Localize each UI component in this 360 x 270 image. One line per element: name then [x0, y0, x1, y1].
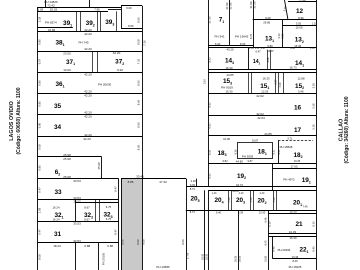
svg-text:6.86: 6.86: [37, 39, 41, 45]
svg-text:1.10: 1.10: [250, 197, 253, 202]
bottom row divider a: [75, 243, 77, 270]
svg-text:1.10: 1.10: [273, 197, 276, 202]
svg-text:6.10: 6.10: [268, 221, 272, 227]
svg-text:25.98: 25.98: [97, 162, 101, 169]
svg-text:30.03: 30.03: [238, 255, 241, 262]
row 15 north boundary: [208, 72, 317, 74]
lot 7_1 south edge: [208, 45, 254, 47]
lot 22_1 west edge: [272, 236, 274, 258]
bottom column divider c: [238, 211, 240, 270]
svg-text:PH 13686: PH 13686: [156, 265, 170, 269]
svg-text:5.16: 5.16: [312, 83, 316, 89]
svg-text:(Código: 34260) Altura: 1100: (Código: 34260) Altura: 1100: [344, 96, 350, 163]
row 6 south boundary / row 33 north: [38, 178, 119, 180]
svg-text:44.85: 44.85: [227, 73, 234, 77]
svg-text:31.56: 31.56: [253, 1, 257, 8]
lot 37_1/37_2 divider a: [92, 51, 94, 72]
row 19 south boundary: [186, 186, 317, 188]
svg-text:6.86: 6.86: [37, 122, 41, 128]
svg-text:9.71: 9.71: [287, 136, 293, 140]
right block east edge (Callao frontage): [316, 0, 318, 270]
svg-text:17.06: 17.06: [186, 252, 190, 259]
svg-text:1.08: 1.08: [37, 207, 41, 213]
svg-text:6.40: 6.40: [216, 211, 222, 215]
svg-text:6.88: 6.88: [107, 244, 113, 248]
svg-text:3.10: 3.10: [277, 33, 281, 39]
lot 39_2/39_3 divider a: [97, 11, 99, 32]
svg-text:6.47: 6.47: [37, 229, 41, 235]
svg-text:5.16: 5.16: [312, 124, 316, 130]
lot PH 13686 east edge: [186, 179, 188, 270]
svg-text:8.66: 8.66: [137, 99, 141, 105]
left block west edge (Lagos Ovidio frontage): [37, 7, 39, 270]
svg-text:8.35: 8.35: [208, 149, 212, 155]
svg-text:PH 16025: PH 16025: [289, 265, 302, 269]
lot 20_2 west edge: [253, 190, 255, 210]
svg-text:8.31: 8.31: [278, 149, 281, 154]
row 37 south boundary: [38, 72, 143, 74]
svg-text:6.10: 6.10: [312, 221, 316, 227]
svg-text:8.86: 8.86: [128, 180, 134, 184]
lot 19_1 west edge: [272, 164, 274, 191]
svg-text:3.18: 3.18: [37, 16, 41, 22]
svg-text:16.87: 16.87: [252, 139, 259, 143]
svg-text:16.39: 16.39: [289, 230, 296, 234]
lot 32_1/32_2 divider: [75, 200, 77, 221]
svg-text:42.20: 42.20: [83, 137, 91, 141]
svg-text:17.05: 17.05: [291, 164, 298, 168]
svg-text:12.88: 12.88: [298, 76, 305, 80]
svg-text:8.32: 8.32: [208, 102, 212, 108]
svg-text:6.07: 6.07: [37, 58, 41, 64]
svg-text:1.10: 1.10: [228, 197, 231, 202]
svg-text:1.40: 1.40: [212, 192, 217, 195]
lot 18_1 interior box: [238, 143, 273, 159]
svg-text:8.47: 8.47: [290, 46, 296, 50]
svg-text:12.00: 12.00: [259, 211, 266, 215]
lot 13_1/13_2 divider: [282, 20, 284, 48]
row 35 south boundary: [38, 114, 143, 116]
row 39 south boundary: [38, 31, 143, 33]
svg-text:8.31: 8.31: [272, 149, 275, 154]
svg-text:34.73: 34.73: [236, 183, 243, 187]
svg-text:23.00: 23.00: [63, 52, 71, 56]
bottom row divider b: [98, 243, 100, 270]
svg-text:44.85: 44.85: [236, 159, 243, 163]
svg-text:6.40: 6.40: [312, 246, 316, 252]
row 32 south boundary: [38, 221, 119, 223]
svg-text:8.66: 8.66: [137, 122, 141, 128]
lot 20_3 west edge: [231, 190, 233, 210]
svg-text:8.67: 8.67: [84, 206, 90, 210]
lot 39_2/39_3 divider b: [100, 11, 102, 32]
top strip south edge: [38, 11, 109, 13]
svg-text:8.66: 8.66: [137, 144, 141, 150]
svg-text:1.10: 1.10: [312, 22, 318, 26]
lot 39_1/39_2 divider b: [80, 11, 82, 32]
svg-text:7.45: 7.45: [302, 205, 308, 209]
svg-text:30.03: 30.03: [205, 253, 208, 260]
column divider b: [208, 190, 210, 270]
svg-text:3.10: 3.10: [203, 78, 207, 84]
svg-text:PH 4972: PH 4972: [283, 178, 295, 182]
svg-text:9.00: 9.00: [136, 239, 140, 245]
svg-text:5.16: 5.16: [312, 103, 316, 109]
left block north edge west part: [38, 7, 122, 9]
row 20 south boundary: [186, 210, 317, 212]
svg-text:PH 20630: PH 20630: [98, 82, 112, 86]
svg-text:33: 33: [54, 189, 62, 196]
row 33 south boundary: [38, 199, 119, 201]
lot 19_1 north edge: [273, 168, 317, 170]
lot 21 west column divider: [268, 211, 270, 270]
lot 12 north edge: [288, 1, 317, 3]
svg-text:16.39: 16.39: [290, 209, 297, 213]
lot 20_5 east edge / column divider a: [204, 190, 206, 270]
svg-text:16.24: 16.24: [53, 206, 60, 210]
svg-text:1.10: 1.10: [310, 47, 315, 50]
svg-text:31.56: 31.56: [207, 16, 211, 23]
svg-text:33.53: 33.53: [73, 221, 81, 225]
svg-text:8.08: 8.08: [37, 254, 41, 260]
left block north edge east part: [121, 5, 142, 7]
lot 20_2 east edge a: [273, 190, 275, 210]
svg-text:42.20: 42.20: [113, 51, 121, 55]
svg-text:42.20: 42.20: [84, 115, 92, 119]
svg-text:6.46: 6.46: [265, 217, 268, 222]
svg-text:PH 18528: PH 18528: [280, 145, 293, 149]
lot 15_3 east edge: [248, 73, 250, 94]
svg-text:3.58: 3.58: [267, 57, 270, 62]
svg-text:6.86: 6.86: [37, 165, 41, 171]
svg-text:44.85: 44.85: [264, 132, 272, 136]
svg-text:16.98: 16.98: [48, 28, 55, 32]
svg-text:16.35: 16.35: [294, 159, 301, 163]
highlighted parcel north edge: [121, 178, 142, 180]
svg-text:9.20: 9.20: [117, 68, 123, 72]
svg-text:7.16: 7.16: [142, 40, 146, 46]
svg-text:9.82: 9.82: [222, 159, 228, 163]
svg-text:PH 9339: PH 9339: [242, 154, 254, 158]
svg-text:12.84: 12.84: [299, 0, 306, 2]
svg-text:33.53: 33.53: [74, 199, 81, 203]
svg-text:PH 6574: PH 6574: [45, 21, 57, 25]
svg-text:LAGOS OVIDIO: LAGOS OVIDIO: [9, 101, 15, 141]
svg-text:15.05: 15.05: [296, 26, 303, 30]
svg-text:42.20: 42.20: [84, 28, 92, 32]
svg-text:42.63: 42.63: [257, 116, 265, 120]
svg-text:6.00: 6.00: [190, 183, 196, 187]
svg-text:42.20: 42.20: [84, 32, 92, 36]
svg-text:47.32: 47.32: [159, 180, 167, 184]
svg-text:42.20: 42.20: [84, 72, 92, 76]
svg-text:6.00: 6.00: [126, 6, 132, 10]
lot 39_1/39_2 divider a: [76, 11, 78, 32]
lot 39_3 east divider: [116, 11, 118, 32]
svg-text:17: 17: [294, 127, 302, 134]
svg-text:33.53: 33.53: [73, 239, 81, 243]
svg-text:PH 341: PH 341: [214, 35, 224, 39]
svg-text:8.40: 8.40: [292, 259, 298, 263]
svg-text:9.28: 9.28: [265, 16, 271, 20]
lot 18_2 west edge: [278, 140, 280, 163]
left block east edge: [142, 6, 144, 270]
lot 21 south edge: [268, 233, 316, 235]
svg-text:25.68: 25.68: [63, 175, 71, 179]
svg-text:30.03: 30.03: [235, 255, 238, 262]
row 13/14 boundary: [208, 47, 317, 49]
svg-text:10.90: 10.90: [223, 137, 230, 141]
lot 12 slanted west edge: [285, 0, 289, 20]
row 36 south boundary: [38, 93, 143, 95]
lot PH 13826 west edge: [45, 0, 47, 7]
lot 14_3 east edge: [248, 48, 250, 70]
svg-text:4.40: 4.40: [239, 192, 244, 195]
svg-text:8.35: 8.35: [234, 149, 237, 154]
svg-text:6.47: 6.47: [37, 187, 41, 193]
lot 12 south edge: [253, 19, 317, 21]
top sliver divider: [89, 0, 91, 7]
highlighted parcel west edge: [121, 179, 123, 270]
svg-text:43.25: 43.25: [227, 48, 234, 52]
row 22 south boundary: [272, 258, 316, 260]
svg-text:8.67: 8.67: [84, 218, 90, 222]
svg-text:3.30: 3.30: [191, 179, 197, 183]
lot 37_1/37_2 divider b: [97, 51, 99, 72]
svg-text:6.46: 6.46: [272, 246, 276, 252]
svg-text:35: 35: [54, 103, 62, 110]
svg-text:18.23: 18.23: [53, 244, 61, 248]
svg-text:16.39: 16.39: [292, 255, 299, 259]
lot 32_2/32_3 divider b: [99, 200, 101, 221]
svg-text:9.80: 9.80: [267, 44, 273, 48]
svg-text:8.32: 8.32: [208, 173, 212, 179]
svg-text:PH 19045: PH 19045: [235, 35, 249, 39]
notch lot east edge: [196, 179, 198, 187]
svg-text:6.00: 6.00: [240, 42, 246, 46]
svg-text:31.96: 31.96: [229, 2, 233, 9]
svg-text:8.73: 8.73: [190, 210, 196, 214]
lot 39_1 interior sub-line: [38, 27, 73, 29]
svg-text:25.98: 25.98: [63, 157, 71, 161]
row 20 north boundary: [208, 190, 317, 192]
lot 39_3 north sub-edge: [108, 9, 121, 11]
svg-text:10.07: 10.07: [267, 49, 274, 53]
svg-text:8.47: 8.47: [114, 229, 118, 235]
svg-text:6.86: 6.86: [37, 101, 41, 107]
parcel highlighted (subject lot): [121, 179, 142, 270]
svg-text:9.00: 9.00: [181, 239, 185, 245]
lot PH 13686 north edge: [142, 178, 186, 180]
svg-text:42.20: 42.20: [84, 94, 92, 98]
svg-text:8.73: 8.73: [190, 187, 196, 191]
svg-text:7.96: 7.96: [94, 7, 100, 11]
lot PH 19045 east edge: [253, 0, 255, 48]
lot 17 south boundary: [208, 135, 317, 137]
svg-text:33.53: 33.53: [73, 179, 81, 183]
row 32 stepped top line: [75, 202, 119, 204]
svg-text:2.97: 2.97: [261, 47, 266, 50]
row 38 south boundary: [38, 51, 143, 53]
svg-text:8.32: 8.32: [208, 123, 212, 129]
svg-text:8.66: 8.66: [137, 17, 141, 23]
svg-text:PH 20156: PH 20156: [102, 252, 106, 265]
svg-text:21: 21: [295, 221, 303, 228]
svg-text:16.33: 16.33: [263, 76, 270, 80]
svg-text:2.10: 2.10: [281, 33, 285, 39]
svg-text:12: 12: [296, 8, 304, 15]
svg-text:6.86: 6.86: [37, 80, 41, 86]
svg-text:6.47: 6.47: [255, 49, 261, 53]
svg-text:13.00: 13.00: [63, 68, 71, 72]
row 31 south boundary: [38, 242, 119, 244]
lot 7_1 east edge: [229, 0, 231, 45]
lot 18_2 dashed north line: [278, 140, 313, 142]
svg-text:29.86: 29.86: [263, 21, 270, 25]
svg-text:16.30: 16.30: [226, 66, 233, 70]
svg-text:6.75: 6.75: [106, 205, 112, 209]
svg-text:1.10: 1.10: [249, 47, 254, 50]
svg-text:6.08: 6.08: [37, 144, 41, 150]
svg-text:8.08: 8.08: [137, 39, 141, 45]
svg-text:5.46: 5.46: [298, 90, 304, 94]
svg-text:9.06: 9.06: [121, 239, 125, 245]
svg-text:33.46: 33.46: [136, 175, 144, 179]
row 14 south boundary: [208, 69, 317, 71]
svg-text:16.50: 16.50: [265, 255, 268, 262]
lot 14_2 east edge a: [267, 50, 269, 70]
svg-text:6.79: 6.79: [249, 33, 253, 39]
lot 15_1 west edge: [251, 73, 253, 94]
svg-text:9.87: 9.87: [247, 159, 253, 163]
svg-text:7.16: 7.16: [137, 58, 141, 64]
lot 13_2 north edge: [283, 25, 317, 27]
svg-text:31: 31: [54, 231, 62, 238]
svg-text:34: 34: [54, 124, 62, 131]
lot 16 south boundary: [208, 115, 317, 117]
svg-text:2.97: 2.97: [275, 79, 278, 84]
svg-text:42.62: 42.62: [256, 94, 264, 98]
row 15 south boundary: [208, 93, 317, 95]
svg-text:9.06: 9.06: [142, 239, 146, 245]
svg-text:4.20: 4.20: [279, 82, 282, 87]
lot 20_3 east edge a: [250, 190, 252, 210]
lot 21 north edge: [268, 213, 316, 215]
svg-text:8.66: 8.66: [128, 24, 134, 28]
right block west edge: [208, 0, 210, 187]
svg-text:6.75: 6.75: [106, 217, 112, 221]
row 34 south boundary: [38, 136, 143, 138]
svg-text:25.02: 25.02: [50, 8, 58, 12]
lot 15_1 east sliver b: [278, 73, 280, 94]
svg-text:1.06: 1.06: [38, 8, 44, 12]
svg-text:16.39: 16.39: [290, 236, 297, 240]
unnumbered row south boundary: [38, 156, 102, 158]
svg-text:6.00: 6.00: [215, 42, 221, 46]
svg-text:8.32: 8.32: [208, 57, 212, 63]
svg-text:PH 20294: PH 20294: [278, 248, 291, 252]
svg-text:8.66: 8.66: [137, 80, 141, 86]
svg-text:8.47: 8.47: [114, 186, 118, 192]
svg-text:30.03: 30.03: [202, 253, 205, 260]
row 18 south boundary: [208, 163, 317, 165]
lot 15_2 west edge: [283, 73, 285, 94]
svg-text:12.05: 12.05: [261, 90, 268, 94]
east sub-lot line 8.66: [121, 28, 142, 30]
lot 6_2 east edge: [101, 157, 103, 179]
svg-text:PH 745: PH 745: [78, 41, 88, 45]
svg-text:16.30: 16.30: [226, 90, 233, 94]
svg-text:16.73: 16.73: [290, 66, 297, 70]
lot 32_2/32_3 divider a: [95, 200, 97, 221]
svg-text:16: 16: [294, 104, 302, 111]
svg-text:6.39: 6.39: [238, 211, 244, 215]
lot 20_1 west edge: [276, 190, 278, 210]
svg-text:(Código: 60650) Altura: 1100: (Código: 60650) Altura: 1100: [16, 87, 22, 154]
svg-text:8.96: 8.96: [298, 16, 304, 20]
lot 20_5 north edge: [186, 186, 208, 188]
svg-text:16.24: 16.24: [53, 218, 60, 222]
svg-text:42.20: 42.20: [84, 47, 92, 51]
svg-text:6.40: 6.40: [265, 240, 268, 245]
rows 33-31 east edge: [118, 179, 120, 270]
lot 14_1 west edge: [270, 50, 272, 70]
svg-text:6.88: 6.88: [84, 244, 90, 248]
svg-text:4.40: 4.40: [260, 192, 265, 195]
east top sub-lot west edge: [121, 6, 123, 28]
lot 15_1 east sliver a: [275, 73, 277, 94]
lot 20_4 east edge a: [228, 190, 230, 210]
row 22 north boundary: [268, 236, 316, 238]
